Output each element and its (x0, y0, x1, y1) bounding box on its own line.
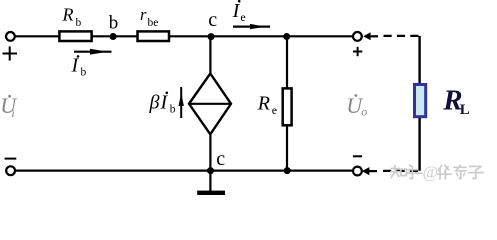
wire R_L bottom (418, 118, 420, 171)
svg-text:R: R (62, 5, 74, 25)
wire from node c down to source (209, 37, 211, 75)
watermark zhihu (391, 165, 422, 179)
resistor r_be (138, 31, 170, 41)
svg-text:e: e (240, 10, 245, 24)
svg-text:b: b (170, 104, 176, 116)
hua (438, 165, 452, 179)
svg-text:β: β (149, 91, 160, 113)
arrowhead into top-right terminal (363, 32, 370, 40)
svg-text:I: I (71, 54, 80, 76)
dong (454, 165, 467, 179)
svg-text:R: R (257, 92, 270, 114)
terminal bottom-right (353, 167, 362, 176)
dependent current source (diamond) (189, 74, 231, 135)
node R_e top (283, 33, 290, 40)
resistor R_e (283, 88, 292, 125)
arrow of dependent source (up) (180, 87, 182, 118)
node R_e bottom (284, 167, 291, 174)
terminal bottom-left (6, 166, 15, 175)
node b (110, 33, 117, 40)
svg-text:I: I (160, 91, 169, 113)
plus sign top-left (3, 53, 18, 55)
svg-text:be: be (148, 17, 159, 29)
svg-text:b: b (81, 66, 87, 78)
svg-text:b: b (76, 17, 82, 29)
plus sign top-right (353, 51, 362, 53)
wire R_e top (286, 37, 288, 89)
minus sign bottom-right (353, 155, 362, 157)
wire top rail (15, 35, 353, 37)
arrowhead into bottom-right terminal (362, 167, 370, 175)
label U_i (0, 93, 18, 120)
current arrow I_b (74, 51, 112, 53)
dashed wire top-right (384, 35, 421, 37)
resistor R_b (59, 31, 91, 41)
svg-text:@: @ (423, 162, 439, 181)
label U_o (346, 93, 367, 119)
wire bottom rail (15, 170, 353, 172)
zi (469, 166, 484, 178)
node c bottom (207, 167, 214, 174)
minus sign bottom-left (5, 158, 17, 160)
ground (209, 171, 211, 191)
wire R_e bottom (286, 126, 288, 171)
node c top (208, 33, 215, 40)
svg-text:b: b (109, 12, 119, 33)
svg-text:i: i (11, 106, 14, 120)
svg-text:L: L (460, 102, 470, 118)
svg-text:I: I (232, 0, 241, 22)
dashed wire bottom-right (383, 170, 421, 172)
wire corner down to R_L (418, 36, 420, 84)
terminal top-right (353, 32, 362, 41)
svg-text:c: c (216, 148, 225, 170)
svg-text:o: o (361, 105, 367, 119)
terminal top-left (6, 32, 15, 41)
resistor R_L (blue) (415, 85, 426, 117)
svg-text:e: e (272, 103, 277, 117)
svg-text:c: c (208, 9, 217, 31)
current arrow I_e (233, 26, 270, 28)
hu (406, 165, 422, 179)
wire from source bottom to bottom rail (209, 134, 211, 171)
zhi (391, 166, 400, 178)
svg-text:r: r (140, 5, 147, 24)
